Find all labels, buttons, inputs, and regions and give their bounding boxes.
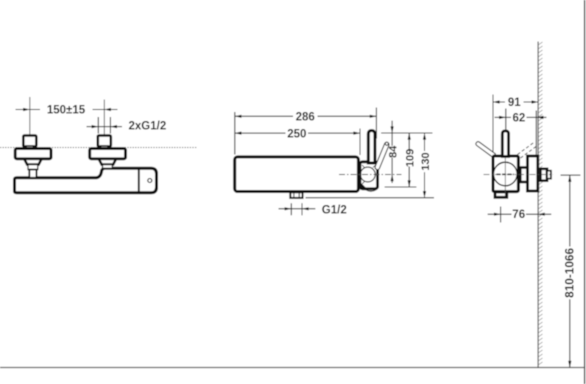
ext line 62 [505, 109, 507, 131]
cartridge circle [360, 167, 375, 182]
ext line right 286 [375, 108, 377, 139]
body bar outline [15, 168, 157, 193]
vertical centerline of body [504, 158, 506, 196]
ext line right 250 [359, 129, 361, 156]
dim 2xG1/2 extension lines [97, 117, 99, 134]
dim 2xG1/2 line [87, 126, 123, 128]
wall hatch [538, 42, 542, 365]
svg-text:109: 109 [405, 149, 417, 167]
right page border [584, 0, 586, 384]
top ref line 810-1066 [561, 174, 581, 176]
left inlet flange [15, 149, 51, 159]
arrow at right centerline [104, 108, 111, 111]
left inlet lower neck [29, 170, 36, 178]
housing corner ticks [362, 165, 376, 184]
right lever (dashed) [518, 143, 537, 159]
dim 150±15 line right segment [93, 109, 118, 111]
end cap separator [138, 168, 140, 193]
right inlet thread block [98, 136, 111, 147]
cartridge circle [494, 162, 518, 186]
arrow right outside [110, 125, 117, 128]
dim 62 line [495, 116, 512, 118]
bottom reference line (130) [306, 197, 435, 199]
dim 286 line [235, 115, 293, 117]
svg-text:250: 250 [287, 129, 306, 141]
ext line 91 [492, 95, 494, 153]
svg-text:286: 286 [296, 112, 315, 124]
lever knob circle [385, 142, 388, 145]
svg-text:91: 91 [508, 97, 521, 109]
ext line left (286/250) [234, 112, 236, 155]
right inlet neck [101, 146, 108, 149]
svg-text:810-1066: 810-1066 [563, 248, 577, 298]
floor line [0, 367, 585, 369]
left inlet thread block [23, 136, 36, 147]
escutcheon [528, 156, 538, 191]
right inlet centerline [103, 100, 105, 148]
svg-text:2xG1/2: 2xG1/2 [129, 121, 167, 133]
left inlet nut [24, 159, 41, 165]
lever alternate position (thin outline capsule) [375, 142, 389, 169]
svg-text:62: 62 [513, 112, 526, 124]
fixture centerline dash-dot [484, 174, 553, 176]
arrow left outside [92, 125, 99, 128]
right inlet nut [99, 159, 116, 165]
svg-text:76: 76 [512, 209, 525, 221]
body rectangle [235, 157, 359, 192]
through-wall fitting [540, 169, 547, 181]
bottom foot [495, 192, 507, 197]
svg-text:130: 130 [420, 152, 432, 170]
right inlet lower step [103, 165, 113, 169]
dim 76 line [488, 213, 512, 215]
dim 84 vertical [391, 121, 393, 133]
svg-text:84: 84 [388, 145, 400, 158]
dim 150±15 line left segment [16, 109, 41, 111]
handle bar (side) [502, 131, 508, 157]
right inlet flange [90, 149, 126, 159]
bottom ref line 109 [385, 186, 417, 188]
top reference line for 84/109/130 [381, 132, 432, 134]
dim G1/2 extension lines [290, 203, 292, 215]
handle bar [368, 131, 375, 163]
arrow at left centerline [23, 108, 30, 111]
wall line [537, 42, 539, 368]
fitting end [547, 171, 551, 179]
end cap hole [148, 179, 152, 183]
left inlet centerline [29, 97, 31, 147]
outlet nipple [290, 192, 302, 198]
housing bottom-left dark corner [361, 183, 367, 188]
dim G1/2 line [279, 208, 316, 210]
dim 810-1066 vertical [569, 175, 571, 246]
left lever (solid outline) [476, 142, 496, 158]
dim 91 line [493, 101, 505, 103]
dim 250 line [235, 132, 286, 134]
outlet thread lines [293, 193, 295, 198]
svg-text:G1/2: G1/2 [322, 205, 347, 217]
housing tail arc [366, 189, 378, 192]
ext line 62 right (escutcheon face) [535, 111, 537, 156]
connector nut [520, 168, 527, 183]
ext line 76 [500, 207, 502, 223]
valve housing [360, 162, 378, 189]
dim 130 vertical [424, 133, 426, 151]
side body block [493, 156, 518, 192]
centerline dash-dot [339, 174, 402, 176]
dim 109 vertical [408, 133, 410, 149]
mark on circle [497, 173, 515, 175]
svg-text:150±15: 150±15 [47, 105, 86, 117]
left inlet lower step [28, 165, 38, 170]
left inlet neck [26, 146, 33, 149]
dashed wall line [0, 147, 197, 149]
